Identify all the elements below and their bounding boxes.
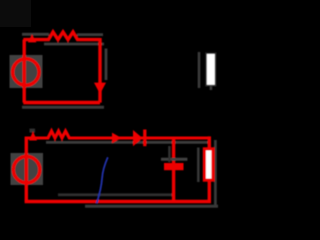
resistor R4 load box (red border, white fill) <box>204 149 213 180</box>
wire: top wire with resistor R1 zigzag <box>23 32 100 40</box>
wire: right vertical of top loop <box>98 38 101 103</box>
background remnant block top-left <box>0 0 31 27</box>
current arrow up at top-left corner <box>28 34 37 42</box>
wire (black remnant) below bottom wire <box>22 106 104 109</box>
source V1 background square <box>10 55 43 88</box>
wire (black remnant) left of load box <box>197 148 200 183</box>
source V2 background square <box>11 153 44 185</box>
capacitor C1 wire remnant (black) <box>168 146 170 162</box>
diode D1 triangle <box>133 130 143 146</box>
wire (black remnant) above bottom wire <box>58 193 172 196</box>
arrow remnant (black) near source corner <box>30 129 36 133</box>
wire (black remnant) right of right wire <box>214 140 217 206</box>
wire (black remnant) below top wire <box>46 141 211 144</box>
capacitor C1 top plate (black remnant) <box>161 158 187 161</box>
wire (black remnant) above top wire, right segment <box>77 33 103 36</box>
wire (black remnant) below bottom wire <box>85 205 218 208</box>
wire: bottom wire of top loop <box>23 101 100 105</box>
waveform trace (blue) <box>97 157 108 203</box>
capacitor C1 branch wire <box>172 138 175 202</box>
current arrow right before diode D1 <box>112 133 122 144</box>
wire (black remnant) stub below load box <box>210 86 213 90</box>
wire: left vertical of top loop <box>23 40 26 103</box>
source V1 (AC source circle) <box>13 59 39 85</box>
wire: bottom wire of bottom loop <box>25 200 211 204</box>
diode D1 cathode bar <box>143 130 146 147</box>
wire: left vertical of bottom loop <box>25 138 28 202</box>
wire: right vertical of bottom loop <box>208 136 211 201</box>
wire: top wire with resistor R3 zigzag <box>25 131 210 138</box>
current arrow up near source corner <box>29 131 37 140</box>
wire (black remnant) right of right wire <box>105 49 108 81</box>
resistor R2 load box (unhighlighted, white fill) <box>206 53 216 85</box>
wire (black remnant) above top wire, left segment <box>22 33 49 36</box>
capacitor C1 bottom plate (red thick bar) <box>164 163 184 170</box>
current arrow down on right wire <box>94 83 106 94</box>
wire (black remnant) left of load box <box>198 52 201 88</box>
source V2 (AC source circle) <box>13 156 39 182</box>
wire (black remnant) below top wire <box>44 43 104 46</box>
